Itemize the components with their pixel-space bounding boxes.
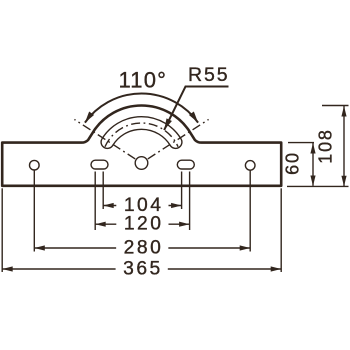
extension line from left round hole (33, 171, 35, 252)
extension line from plate right corner (280, 188, 282, 272)
svg-text:108: 108 (316, 128, 336, 163)
dimension 108 (343, 106, 345, 187)
pivot centre circle (135, 157, 148, 170)
dimension 120 (95, 223, 189, 225)
svg-text:280: 280 (124, 237, 164, 258)
extension lines from right oval slot (181, 172, 183, 210)
dimension 60 (312, 143, 314, 186)
R55 leader arrowhead (164, 118, 172, 130)
right round hole (245, 161, 255, 171)
right oval slot (177, 160, 194, 169)
dimension 280 (34, 247, 250, 249)
R55 leader line (164, 87, 228, 131)
plate outline (2, 106, 281, 186)
extension tick for 108 top (322, 105, 349, 107)
110 deg arc right arrowhead (189, 112, 198, 123)
110 deg arc left arrowhead (85, 112, 94, 123)
svg-text:R55: R55 (188, 64, 229, 86)
svg-text:120: 120 (124, 214, 164, 235)
extension tick for 60 top (288, 142, 314, 144)
extension line bottom (shared 60/108) (287, 185, 349, 187)
svg-text:60: 60 (283, 151, 303, 175)
left oval slot (91, 160, 108, 169)
svg-text:365: 365 (123, 258, 163, 279)
extension line from right round hole (249, 171, 251, 252)
110 deg dimension arc (85, 94, 198, 123)
dimension 104 (103, 205, 181, 207)
dimension 365 (2, 268, 281, 270)
left radial centreline (dash-dot) (74, 119, 135, 158)
extension lines from left oval slot (94, 172, 96, 231)
svg-text:110°: 110° (118, 68, 167, 93)
extension line from plate left corner (1, 188, 3, 272)
curved slot (stadium) (101, 117, 182, 149)
centreline arc (R55, dash-dot) (105, 123, 178, 147)
right radial centreline (dash-dot) (148, 119, 209, 158)
left round hole (30, 160, 40, 170)
